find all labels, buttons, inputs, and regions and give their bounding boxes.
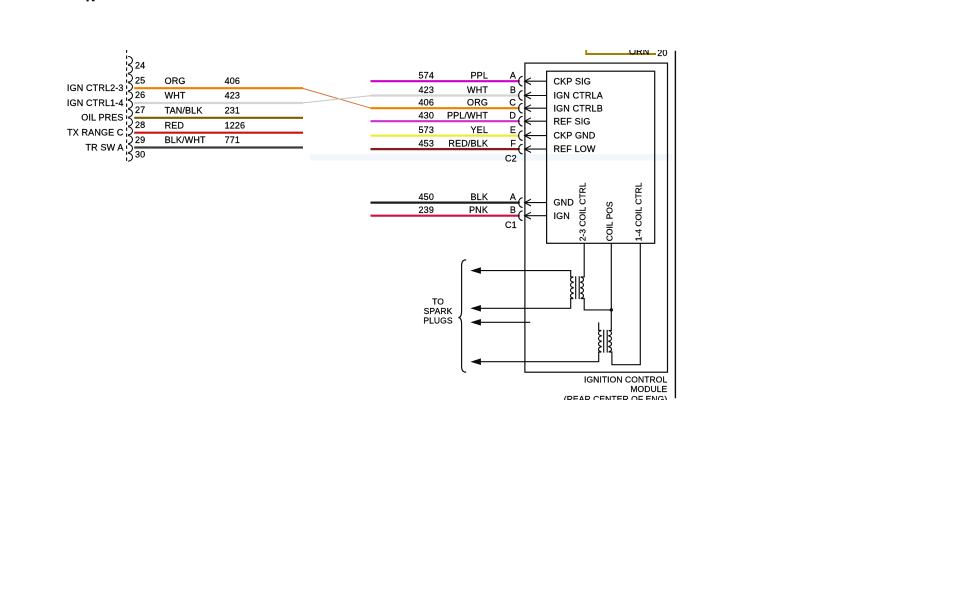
arrow into module pin E xyxy=(525,132,547,139)
terminal arc C2 pin E xyxy=(519,131,523,141)
svg-text:423: 423 xyxy=(419,85,434,95)
svg-text:CKP GND: CKP GND xyxy=(554,131,596,141)
terminal arc C1 pin B xyxy=(519,211,523,221)
svg-text:RED: RED xyxy=(165,120,185,130)
arrow into module pin B xyxy=(525,212,547,219)
brace for spark plug outputs xyxy=(458,260,466,372)
svg-text:TO: TO xyxy=(432,296,444,306)
svg-text:30: 30 xyxy=(135,150,145,160)
arrow into module pin F xyxy=(525,146,547,153)
svg-text:231: 231 xyxy=(225,105,240,115)
wire ORG 406 to ICM C2 pin C xyxy=(371,107,520,109)
svg-text:CKP SIG: CKP SIG xyxy=(554,76,591,86)
scan artifact band under C2 row xyxy=(310,154,672,161)
svg-text:YEL: YEL xyxy=(471,125,488,135)
svg-text:WHT: WHT xyxy=(165,91,186,101)
svg-text:25: 25 xyxy=(135,75,145,85)
transformer T2 core xyxy=(603,330,605,353)
arrow into module pin A xyxy=(525,199,547,206)
svg-text:COIL POS: COIL POS xyxy=(604,201,614,241)
svg-text:IGN: IGN xyxy=(554,211,570,221)
svg-text:A: A xyxy=(510,192,516,202)
transformer T1 ignition coil 2-3 primary winding xyxy=(571,277,574,298)
transformer T2 secondary winding xyxy=(609,331,612,352)
text remnant top edge xyxy=(87,0,89,1)
wire ORG 406 pin row y=88.2 xyxy=(134,87,303,89)
ignition control module outer box xyxy=(525,63,668,372)
svg-text:771: 771 xyxy=(225,135,240,145)
wire RED/BLK 453 to ICM C2 pin F xyxy=(371,148,520,150)
svg-text:B: B xyxy=(510,85,516,95)
svg-text:PPL/WHT: PPL/WHT xyxy=(447,111,488,121)
svg-text:C2: C2 xyxy=(505,153,517,163)
wire PPL/WHT 430 to ICM C2 pin D xyxy=(371,120,520,122)
svg-text:IGN CTRL2-3: IGN CTRL2-3 xyxy=(67,83,124,93)
svg-text:430: 430 xyxy=(419,111,434,121)
svg-text:TR SW A: TR SW A xyxy=(86,142,124,152)
svg-text:REF LOW: REF LOW xyxy=(554,144,596,154)
wire T1 right bottom lead to coil pos junction xyxy=(581,299,612,310)
wire RED 1226 pin row y=132.7 xyxy=(134,132,303,134)
svg-text:GND: GND xyxy=(554,198,575,208)
svg-text:24: 24 xyxy=(135,61,145,71)
svg-text:1226: 1226 xyxy=(225,120,246,130)
svg-text:WHT: WHT xyxy=(467,85,488,95)
wire vertical right edge xyxy=(674,51,676,398)
connector C2 PCM left, dashed body line xyxy=(126,50,128,163)
svg-text:MODULE: MODULE xyxy=(630,384,667,394)
wire PNK 239 to ICM C1 pin B xyxy=(371,215,520,217)
svg-text:ORG: ORG xyxy=(467,98,488,108)
terminal arc C1 pin A xyxy=(519,198,523,208)
wire spark plug line 3 (open end) xyxy=(479,321,530,323)
arrow to spark plugs 4 xyxy=(470,358,481,365)
junction dot coil pos xyxy=(610,308,613,311)
transformer T1 secondary winding xyxy=(581,277,584,298)
wire T2 left bottom lead to spark plug arrow 4 xyxy=(479,352,601,362)
svg-text:26: 26 xyxy=(135,90,145,100)
terminal arc C2 pin D xyxy=(519,116,523,126)
ignition control module inner box xyxy=(547,71,655,243)
wire T1 left bottom lead to spark plug arrow 2 xyxy=(479,299,573,309)
svg-text:PPL: PPL xyxy=(471,71,488,81)
svg-text:D: D xyxy=(509,111,516,121)
arrow into module pin A xyxy=(525,78,547,85)
svg-text:BLK/WHT: BLK/WHT xyxy=(165,135,206,145)
svg-text:28: 28 xyxy=(135,120,145,130)
svg-text:TX RANGE C: TX RANGE C xyxy=(67,128,124,138)
crop mask top xyxy=(0,0,962,50)
svg-text:450: 450 xyxy=(419,192,434,202)
arrow to spark plugs 2 xyxy=(470,305,481,312)
svg-text:2-3 COIL CTRL: 2-3 COIL CTRL xyxy=(577,182,587,241)
svg-text:C: C xyxy=(509,98,516,108)
svg-text:OIL PRES: OIL PRES xyxy=(81,113,123,123)
svg-text:PLUGS: PLUGS xyxy=(423,316,453,326)
terminal arc C2 pin B xyxy=(519,91,523,101)
svg-text:573: 573 xyxy=(419,125,434,135)
terminal arc C2 pin F xyxy=(519,144,523,154)
svg-text:239: 239 xyxy=(419,205,434,215)
wire WHT 423 pin row y=103.0 xyxy=(134,102,303,104)
svg-text:RED/BLK: RED/BLK xyxy=(448,139,488,149)
wire ORN 20 top clipped xyxy=(585,53,656,55)
wire T1 left top lead to spark plug arrow 1 xyxy=(479,271,573,277)
arrow into module pin C xyxy=(525,105,547,112)
connector left terminal arcs xyxy=(128,56,132,161)
wire WHT 423 to ICM C2 pin B xyxy=(371,94,520,96)
transformer T2 ignition coil 1-4 primary winding xyxy=(599,331,602,352)
wire coil pos vertical xyxy=(609,243,612,330)
svg-text:IGN CTRLA: IGN CTRLA xyxy=(554,91,603,101)
terminal arc C2 pin C xyxy=(519,103,523,113)
svg-text:C1: C1 xyxy=(505,220,517,230)
svg-text:TAN/BLK: TAN/BLK xyxy=(165,105,203,115)
svg-text:E: E xyxy=(510,125,516,135)
svg-text:IGN CTRLB: IGN CTRLB xyxy=(554,103,603,113)
transformer T1 core xyxy=(575,276,577,299)
svg-text:406: 406 xyxy=(419,98,434,108)
svg-text:27: 27 xyxy=(135,105,145,115)
arrow to spark plugs 1 xyxy=(470,267,481,274)
wire crossover WHT 423 diagonal xyxy=(303,96,371,103)
crop mask bottom xyxy=(0,400,962,612)
svg-text:F: F xyxy=(510,139,516,149)
arrow to spark plugs 3 xyxy=(470,319,481,326)
svg-text:574: 574 xyxy=(419,71,434,81)
wire crossover ORG 406 diagonal xyxy=(303,88,371,108)
terminal arc C2 pin A xyxy=(519,76,523,86)
arrow into module pin B xyxy=(525,92,547,99)
svg-text:29: 29 xyxy=(135,135,145,145)
svg-text:BLK: BLK xyxy=(471,192,488,202)
svg-text:REF SIG: REF SIG xyxy=(554,116,591,126)
svg-text:ORG: ORG xyxy=(165,76,186,86)
svg-text:A: A xyxy=(510,71,516,81)
wire 2-3 coil ctrl vertical xyxy=(581,243,585,277)
wire 1-4 coil ctrl vertical xyxy=(609,243,641,364)
wire PPL 574 to ICM C2 pin A xyxy=(371,80,520,82)
svg-text:PNK: PNK xyxy=(469,205,488,215)
svg-text:SPARK: SPARK xyxy=(424,306,453,316)
wire BLK/WHT 771 pin row y=147.5 xyxy=(134,146,303,148)
svg-text:1-4 COIL CTRL: 1-4 COIL CTRL xyxy=(633,182,643,241)
arrow into module pin D xyxy=(525,118,547,125)
wire T2 left top stub xyxy=(599,322,602,330)
svg-text:453: 453 xyxy=(419,139,434,149)
svg-text:406: 406 xyxy=(225,76,240,86)
wire TAN/BLK 231 pin row y=117.8 xyxy=(134,117,303,119)
wire BLK 450 to ICM C1 pin A xyxy=(371,202,520,204)
svg-text:423: 423 xyxy=(225,91,240,101)
svg-text:IGN CTRL1-4: IGN CTRL1-4 xyxy=(67,98,124,108)
wire YEL 573 to ICM C2 pin E xyxy=(371,135,520,137)
svg-text:B: B xyxy=(510,205,516,215)
